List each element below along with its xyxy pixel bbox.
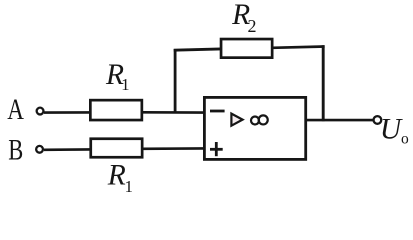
svg-text:B: B (8, 132, 23, 166)
svg-text:1: 1 (121, 75, 130, 94)
svg-text:1: 1 (125, 177, 134, 196)
svg-text:A: A (7, 92, 24, 126)
svg-text:R: R (107, 159, 126, 191)
svg-text:o: o (401, 130, 409, 147)
svg-text:2: 2 (248, 16, 257, 36)
svg-text:U: U (380, 113, 403, 145)
